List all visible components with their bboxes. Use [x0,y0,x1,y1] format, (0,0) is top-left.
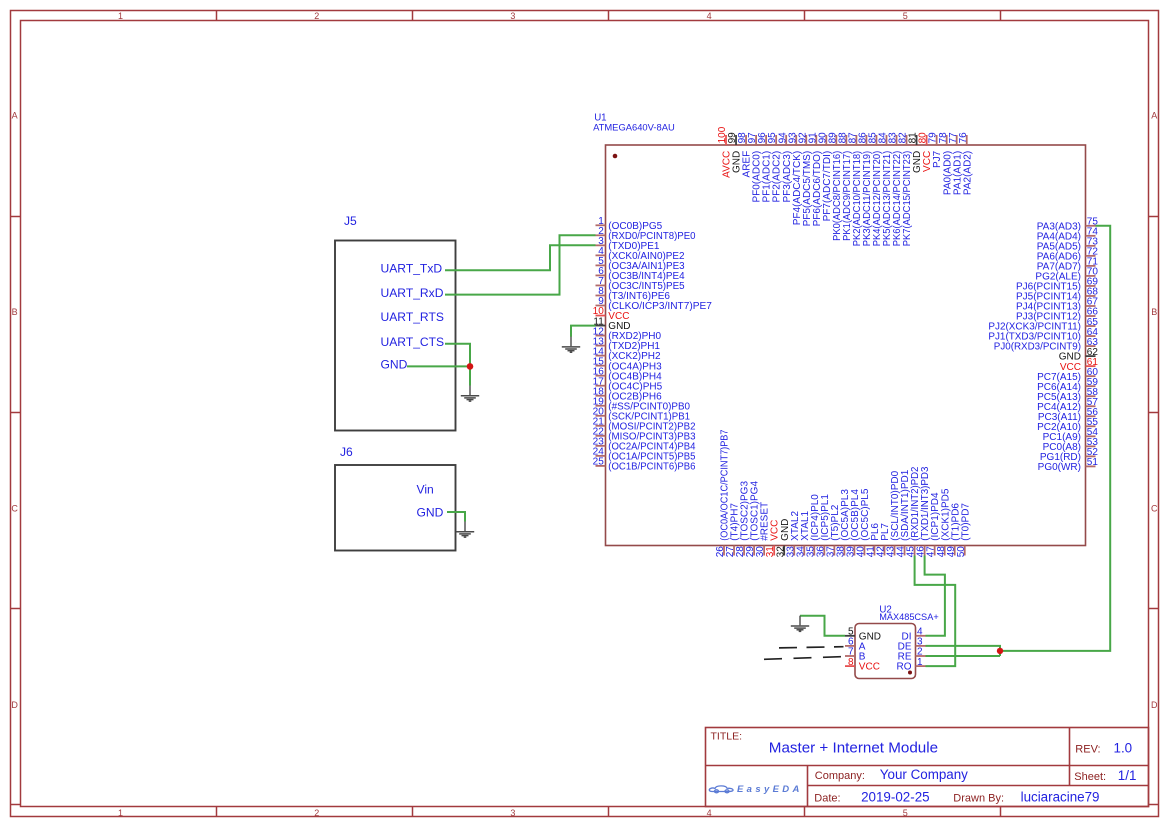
svg-text:C: C [11,503,18,513]
svg-text:8: 8 [848,657,854,668]
J6 pin GND [417,505,444,519]
U1 pin 73 PA5(AD5) [1037,237,1099,253]
U1 pin 75 PA3(AD3) [1037,217,1099,233]
U1 pin 93 PF4(ADC4/TCK) [787,132,803,225]
dashed line net B [764,657,844,660]
svg-text:MAX485CSA+: MAX485CSA+ [879,612,939,622]
svg-text:UART_RxD: UART_RxD [381,286,444,300]
title block frame [706,728,1149,807]
svg-text:51: 51 [1087,457,1099,468]
ground (J6) [456,522,474,538]
U1 pin 26 (OC0A/OC1C/PCINT7)PB7 [715,429,731,557]
U1 pin 43 (SCL/INT0)PD0 [886,470,902,557]
U1 pin 63 PJ0(RXD3/PCINT9) [994,337,1099,353]
svg-text:UART_TxD: UART_TxD [381,262,443,276]
U2 pin 5 GND [845,627,881,643]
U1 pin 38 (OC5A)PL3 [835,489,851,558]
svg-text:REV:: REV: [1075,744,1100,756]
ground (U1 GND) [562,337,580,353]
connector J5 body [335,241,456,431]
svg-text:76: 76 [958,132,969,144]
U1 pin 10 VCC [593,306,630,322]
U2 pin 2 RE [898,647,926,663]
wire U2 pin 5 GND to ground [800,616,845,636]
U1 pin 52 PG1(RD) [1040,447,1098,463]
U1 pin 84 PK5(ADC13/PCINT21) [878,132,894,246]
J5 pin UART_CTS [381,335,445,349]
U1 pin 90 PF7(ADC7/TDI) [817,132,833,222]
svg-text:Master + Internet Module: Master + Internet Module [769,740,938,757]
U1 pin 41 PL6 [866,523,882,558]
U2 pin 8 VCC [845,657,880,673]
title block TITLE label [711,731,743,743]
svg-text:GND: GND [381,358,408,372]
U1 pin 36 (ICP5)PL1 [815,494,831,558]
svg-text:3: 3 [510,11,515,21]
ground (J5) [461,386,479,402]
svg-text:A: A [12,111,18,121]
svg-text:J5: J5 [344,214,357,228]
U1 pin 7 (OC3C/INT5)PE5 [596,276,686,292]
svg-text:Date:: Date: [814,793,840,805]
U1 pin 70 PG2(ALE) [1035,267,1098,283]
U1 pin 35 (ICP4)PL0 [805,494,821,558]
U1 pin 50 (T0)PD7 [956,503,972,558]
J6 pin Vin [417,482,434,496]
wire junction to ground [469,366,471,385]
wire J6 GND to ground [447,512,465,522]
U1 pin 15 (OC4A)PH3 [593,356,662,372]
wire J5 GND to junction [407,365,470,367]
svg-text:UART_CTS: UART_CTS [381,335,445,349]
U1 pin 95 PF2(ADC2) [767,132,783,203]
U1 pin 32 GND [775,519,791,558]
svg-text:4: 4 [707,808,712,818]
wire U1 pin 11 GND to ground [571,326,596,337]
svg-text:Company:: Company: [815,770,865,782]
U1 pin 30 #RESET [755,502,771,557]
svg-text:1: 1 [118,11,123,21]
REV label [1075,744,1100,756]
U1 pin 100 AVCC [717,126,733,178]
U1 pin 46 (TXD1/INT3)PD3 [916,466,932,557]
U2 pin 6 A [845,637,866,653]
Drawn By value [1021,790,1100,805]
U1 pin 94 PF3(ADC3) [777,132,793,203]
svg-text:VCC: VCC [859,662,880,673]
U1 pin 64 PJ1(TXD3/PCINT10) [988,327,1098,343]
U1 pin 17 (OC4C)PH5 [593,376,663,392]
U1 pin 20 (SCK/PCINT1)PB1 [593,406,691,422]
svg-text:RO: RO [897,662,912,673]
svg-text:5: 5 [903,808,908,818]
svg-text:EasyEDA: EasyEDA [737,784,803,795]
U1 pin 23 (OC2A/PCINT4)PB4 [593,437,696,453]
svg-text:(T0)PD7: (T0)PD7 [960,503,971,541]
U1 pin 34 XTAL1 [795,511,811,558]
Drawn By label [953,793,1004,805]
U1 pin 68 PJ5(PCINT14) [1016,287,1098,303]
J5 pin UART_TxD [381,262,443,276]
wire U2 DE to junction [926,646,1001,656]
U1 pin 49 (T1)PD6 [946,503,962,558]
U1 pin 29 (TOSC1)PG4 [745,481,761,558]
U1 pin 76 PA2(AD2) [958,132,974,195]
svg-text:Drawn By:: Drawn By: [953,793,1004,805]
U1 pin 57 PC4(A12) [1037,397,1098,413]
U1 pin 58 PC5(A13) [1037,387,1098,403]
REV value [1114,741,1133,756]
U1 pin 66 PJ3(PCINT12) [1016,307,1098,323]
wire junction to U1 pin 75 PA3 [1000,226,1110,651]
IC U1 ATMEGA640V-8AU body [606,145,1086,546]
U1 pin 47 (ICP1)PD4 [926,492,942,557]
U1 pin 65 PJ2(XCK3/PCINT11) [988,317,1098,333]
U1 pin 12 (RXD2)PH0 [593,326,662,342]
U1 pin 85 PK4(ADC12/PCINT20) [868,132,884,246]
svg-text:ATMEGA640V-8AU: ATMEGA640V-8AU [593,122,675,133]
U1 pin 39 (OC5B)PL4 [845,489,861,558]
Sheet value [1118,768,1137,783]
wire UART_TxD to U1 pin 3 [445,245,596,270]
U1 pin 42 PL7 [876,523,892,558]
U1 pin 3 (TXD0)PE1 [596,236,660,252]
U1 pin 61 VCC [1060,357,1098,373]
svg-text:2: 2 [314,11,319,21]
svg-text:2: 2 [314,808,319,818]
U1 pin 62 GND [1059,347,1099,363]
U1 pin 74 PA4(AD4) [1037,227,1099,243]
U1 pin 28 (TOSC2)PG3 [735,481,751,558]
svg-text:D: D [1151,700,1158,710]
J5 designator label [344,214,357,228]
svg-text:UART_RTS: UART_RTS [381,310,444,324]
wire UART_CTS to junction [445,344,470,367]
svg-text:1/1: 1/1 [1118,768,1137,783]
U1 pin 89 PK0(ADC8/PCINT16) [827,132,843,241]
U1 pin 54 PC1(A9) [1043,427,1099,443]
Date label [814,793,840,805]
U1 pin 11 GND [593,316,630,332]
U1 pin 97 PF0(ADC0) [747,132,763,203]
svg-text:2019-02-25: 2019-02-25 [861,790,930,805]
U1 pin 91 PF6(ADC6/TDO) [807,132,823,227]
U1 pin 80 VCC [918,132,934,172]
svg-text:luciaracine79: luciaracine79 [1021,790,1100,805]
U1 pin 71 PA7(AD7) [1037,257,1099,273]
U1 pin 37 (T5)PL2 [825,504,841,557]
U1 pin 21 (MOSI/PCINT2)PB2 [593,417,696,433]
U2 pin 7 B [845,647,866,663]
U1 pin 45 (RXD1/INT2)PD2 [906,466,922,557]
svg-text:50: 50 [956,546,967,558]
U1 pin 92 PF5(ADC5/TMS) [797,132,813,227]
U2 designator label [879,604,939,622]
EasyEDA logo [709,786,733,793]
U1 pin 79 PJ7 [928,132,944,168]
svg-text:J6: J6 [340,445,353,459]
U1 pin 27 (T4)PH7 [725,503,741,558]
U1 pin 5 (OC3A/AIN1)PE3 [596,256,686,272]
U1 pin 78 PA0(AD0) [938,132,954,195]
svg-text:1.0: 1.0 [1114,741,1133,756]
dashed line net A [779,647,844,648]
U1 pin 67 PJ4(PCINT13) [1016,297,1098,313]
U2 pin 4 DI [902,627,926,643]
U1 pin 9 (CLKO/ICP3/INT7)PE7 [596,296,713,312]
svg-text:Sheet:: Sheet: [1074,771,1106,783]
U1 designator label [593,113,675,133]
U1 pin 40 (OC5C)PL5 [856,488,872,557]
U1 pin 8 (T3/INT6)PE6 [596,286,671,302]
U1 pin 86 PK3(ADC11/PCINT19) [858,132,874,246]
svg-text:5: 5 [903,11,908,21]
wire UART_RxD to U1 pin 2 [445,235,596,294]
svg-text:Vin: Vin [417,482,434,496]
connector J6 body [335,465,456,551]
svg-text:4: 4 [707,11,712,21]
U1 pin 4 (XCK0/AIN0)PE2 [596,246,686,262]
U1 pin 99 GND [727,132,743,173]
U1 pin 6 (OC3B/INT4)PE4 [596,266,686,282]
U1 pin 53 PC0(A8) [1043,437,1099,453]
U1 pin 88 PK1(ADC9/PCINT17) [837,132,853,241]
U1 pin 18 (OC2B)PH6 [593,386,662,402]
svg-text:Your Company: Your Company [880,767,968,782]
J6 designator label [340,445,353,459]
U1 pin 31 VCC [765,520,781,558]
U1 pin 2 (RXD0/PCINT8)PE0 [596,226,696,242]
junction dot DE/RE [997,648,1003,654]
U1 pin 87 PK2(ADC10/PCINT18) [847,132,863,246]
svg-text:B: B [12,307,18,317]
U1 pin 83 PK6(ADC14/PCINT22) [888,132,904,246]
svg-text:1: 1 [917,657,923,668]
U1 pin 96 PF1(ADC1) [757,132,773,203]
Company value [880,767,968,782]
J5 pin GND [381,358,408,372]
U1 pin 56 PC3(A11) [1038,407,1099,423]
U1 pin 81 GND [908,132,924,173]
Date value [861,790,930,805]
U1 pin 48 (XCK1)PD5 [936,488,952,557]
Company label [815,770,865,782]
U1 pin 19 (#SS/PCINT0)PB0 [593,396,691,412]
svg-text:1: 1 [118,808,123,818]
U1 pin 13 (TXD2)PH1 [593,336,661,352]
svg-text:D: D [11,700,18,710]
U1 pin 82 PK7(ADC15/PCINT23) [898,132,914,246]
U1 pin 98 AREF [737,132,753,178]
wire U1 pin 45 RXD1 to U2 RO [915,556,956,667]
svg-text:GND: GND [417,505,444,519]
Sheet label [1074,771,1106,783]
U1 pin 55 PC2(A10) [1037,417,1098,433]
U1 pin 22 (MISO/PCINT3)PB3 [593,427,696,443]
junction dot J5 GND [467,363,474,370]
U1 pin 77 PA1(AD1) [948,132,964,195]
J5 pin UART_RTS [381,310,444,324]
U1 pin 44 (SDA/INT1)PD1 [896,469,912,557]
U2 pin 1 RO [897,657,926,673]
svg-text:B: B [1151,307,1157,317]
U1 pin 33 XTAL2 [785,511,801,558]
U1 pin 51 PG0(WR) [1038,457,1099,473]
svg-text:25: 25 [593,457,605,468]
U1 pin 24 (OC1A/PCINT5)PB5 [593,447,696,463]
U2 pin 3 DE [898,637,926,653]
svg-text:C: C [1151,503,1158,513]
U1 pin 16 (OC4B)PH4 [593,366,662,382]
IC U2 MAX485CSA+ body [855,624,916,679]
ground (U2) [791,616,809,632]
svg-text:TITLE:: TITLE: [711,731,743,743]
svg-text:PG0(WR): PG0(WR) [1038,462,1081,473]
U1 pin 69 PJ6(PCINT15) [1016,277,1098,293]
svg-text:3: 3 [510,808,515,818]
U1 pin 14 (XCK2)PH2 [593,346,661,362]
svg-text:PA2(AD2): PA2(AD2) [962,151,973,195]
svg-text:(OC1B/PCINT6)PB6: (OC1B/PCINT6)PB6 [608,462,696,473]
svg-text:A: A [1151,111,1157,121]
J5 pin UART_RxD [381,286,444,300]
U1 pin 60 PC7(A15) [1037,367,1098,383]
U1 pin 1 (OC0B)PG5 [596,216,663,232]
title text [769,740,938,757]
U1 pin 25 (OC1B/PCINT6)PB6 [593,457,696,473]
U1 pin 59 PC6(A14) [1037,377,1098,393]
wire U2 RE to junction [926,655,1001,657]
wire U1 pin 46 TXD1 to U2 DI [925,556,945,636]
U1 pin 72 PA6(AD6) [1037,247,1099,263]
